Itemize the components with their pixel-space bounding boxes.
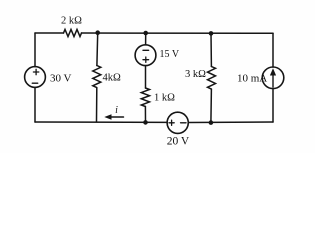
wire top right segment bbox=[82, 32, 274, 34]
voltage source V3 20V circle bbox=[167, 112, 188, 133]
svg-text:10 mA: 10 mA bbox=[237, 72, 267, 84]
wire branch 4k lower bbox=[96, 88, 98, 122]
svg-text:2 kΩ: 2 kΩ bbox=[61, 15, 82, 26]
junction dot top of 15V branch bbox=[143, 31, 148, 36]
wire left edge upper bbox=[34, 33, 36, 67]
V1 plus sign bbox=[33, 69, 38, 74]
svg-text:20 V: 20 V bbox=[167, 136, 190, 148]
V2 minus sign bbox=[143, 49, 149, 51]
V1 minus sign bbox=[32, 82, 37, 84]
wire branch 3k lower bbox=[210, 89, 213, 122]
svg-text:15 V: 15 V bbox=[160, 49, 180, 60]
wire bottom left segment bbox=[35, 121, 167, 123]
wire branch 4k upper bbox=[96, 33, 99, 66]
wire top left segment bbox=[35, 32, 64, 34]
svg-text:1 kΩ: 1 kΩ bbox=[154, 93, 175, 104]
wire right edge upper bbox=[272, 33, 274, 67]
voltage source V2 15V circle bbox=[135, 45, 156, 66]
junction dot bottom of 1k branch bbox=[143, 120, 148, 125]
wire bottom right segment bbox=[188, 121, 273, 124]
V3 minus sign bbox=[181, 122, 186, 124]
svg-text:i: i bbox=[115, 105, 118, 116]
wire right edge lower bbox=[272, 89, 274, 122]
resistor 2k zigzag bbox=[64, 29, 82, 36]
V2 plus sign bbox=[143, 57, 149, 62]
wire branch 15V upper bbox=[145, 33, 147, 45]
I1 arrow bbox=[272, 73, 274, 87]
resistor 1k zigzag bbox=[141, 88, 149, 107]
resistor 3k zigzag bbox=[208, 67, 216, 90]
voltage source V1 30V circle bbox=[25, 67, 46, 88]
svg-text:30 V: 30 V bbox=[50, 72, 72, 84]
wire left edge lower bbox=[34, 87, 36, 122]
wire 15V to 1k bbox=[145, 66, 147, 88]
wire branch 3k upper bbox=[210, 33, 212, 66]
junction dot bottom of 3k branch bbox=[209, 120, 214, 125]
junction dot top of 3k branch bbox=[209, 31, 214, 36]
current source I1 10mA circle bbox=[262, 67, 284, 89]
current arrow i bbox=[109, 116, 124, 118]
V3 plus sign bbox=[169, 120, 174, 125]
wire branch 1k lower bbox=[144, 107, 146, 123]
svg-text:3 kΩ: 3 kΩ bbox=[185, 69, 206, 80]
junction dot top of 4k branch bbox=[95, 30, 100, 35]
resistor 4k zigzag bbox=[93, 66, 101, 88]
svg-text:4kΩ: 4kΩ bbox=[103, 72, 122, 83]
